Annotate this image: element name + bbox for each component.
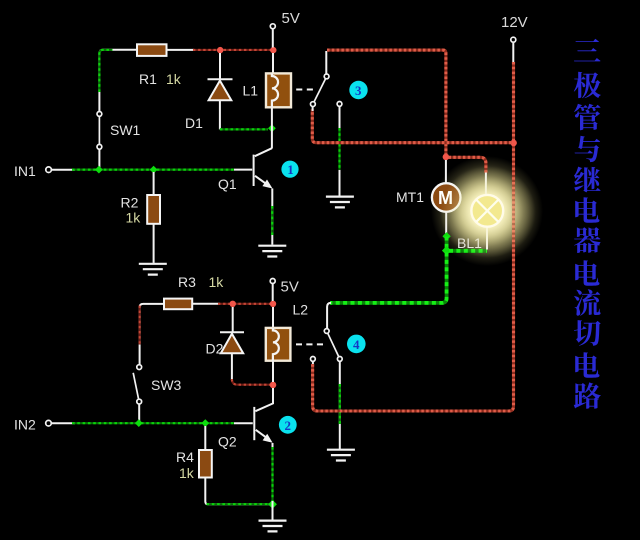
wire green to bulb bottom (449, 249, 487, 253)
bulb glow overlay (440, 166, 536, 258)
wire switch3 right contact to ground (339, 106, 341, 196)
wire 12V rail (313, 62, 514, 411)
svg-text:L1: L1 (243, 83, 259, 99)
wire top red loop to loads (327, 50, 446, 155)
svg-text:4: 4 (353, 337, 360, 352)
terminal 5V lower (270, 279, 299, 302)
svg-text:1k: 1k (126, 210, 142, 226)
junction (5V/L2) (270, 301, 276, 307)
node 2 (279, 416, 297, 434)
wire bulb top red branch (449, 157, 486, 195)
wire D1 bottom (219, 100, 221, 129)
wire R3 left / SW3 riser (140, 304, 165, 365)
wire IN2 (14, 417, 253, 433)
svg-text:SW3: SW3 (151, 377, 182, 393)
wire R2 top (153, 172, 155, 196)
transistor Q2 (218, 388, 273, 450)
svg-text:IN1: IN1 (14, 163, 36, 179)
junction (5V/L1) (270, 47, 276, 53)
junction (R4/IN2) (201, 419, 209, 427)
svg-text:L2: L2 (293, 302, 309, 318)
svg-text:2: 2 (285, 418, 292, 433)
svg-text:1k: 1k (209, 274, 225, 290)
wire node to L1 top (272, 53, 274, 74)
relay L2 (266, 302, 308, 361)
switch 3 (relay L1 contact) (311, 74, 342, 107)
diode D2 (206, 332, 245, 356)
svg-text:5V: 5V (281, 279, 299, 296)
junction (R1/D1) (217, 47, 223, 53)
terminal 12V (501, 14, 528, 63)
svg-text:1: 1 (287, 162, 294, 177)
wire SW1 to R1 (99, 50, 137, 112)
wire motor top (445, 160, 447, 183)
wire node to D1 (219, 53, 221, 79)
wire R2 bottom (153, 224, 155, 263)
junction (motor bottom) (442, 232, 450, 240)
svg-text:SW1: SW1 (110, 122, 141, 138)
node 3 (349, 81, 367, 99)
diode D1 (185, 79, 233, 131)
linkage dashes L1 (296, 89, 313, 91)
svg-text:Q2: Q2 (218, 434, 237, 450)
junction (L2 bottom) (270, 382, 277, 389)
resistor R4 (176, 449, 212, 481)
svg-text:IN2: IN2 (14, 417, 36, 433)
wire motor bottom (445, 212, 447, 235)
svg-text:R3: R3 (178, 274, 196, 290)
svg-text:D1: D1 (185, 115, 203, 131)
node 1 (281, 161, 298, 178)
svg-text:Q1: Q1 (218, 176, 237, 192)
ground (switch3) (326, 197, 354, 208)
wire R3 right (192, 303, 273, 305)
svg-text:D2: D2 (206, 341, 224, 357)
resistor R3 (164, 274, 224, 309)
motor MT1 (396, 183, 461, 212)
svg-text:MT1: MT1 (396, 189, 424, 205)
junction (R3/D2) (230, 301, 236, 307)
node 4 (347, 335, 366, 354)
wire L2 bottom (272, 361, 274, 382)
wire node to D2 (232, 307, 234, 332)
svg-text:R4: R4 (176, 449, 194, 465)
wire R1 to node (167, 49, 274, 51)
wire SW3 bottom (138, 404, 140, 422)
bulb BL1 (471, 195, 503, 227)
terminal 5V (270, 10, 300, 48)
wire node to L2 top (272, 307, 274, 328)
wire L1 bottom to Q1 collector (271, 107, 273, 148)
linkage dashes L2 (296, 343, 323, 345)
svg-text:5V: 5V (282, 10, 300, 27)
wire switch4 left stub (312, 361, 314, 366)
svg-text:R2: R2 (121, 195, 139, 211)
wire green return loop (327, 253, 447, 329)
svg-text:12V: 12V (501, 14, 528, 31)
junction (SW3/IN2) (135, 419, 143, 427)
wire IN1 (14, 163, 234, 179)
ground (Q1 emitter) (258, 246, 286, 257)
junction (12V rail) (510, 140, 517, 147)
junction (L1 bottom) (268, 124, 276, 132)
ground (R2) (139, 264, 167, 275)
junction (R2/IN1) (150, 166, 158, 174)
switch 4 (relay L2 contact) (311, 329, 343, 362)
switch SW3 (133, 365, 181, 404)
wire D2 bottom (232, 353, 270, 384)
wire 12V to switch3 left contact (312, 107, 511, 143)
wire Q1 base (234, 169, 252, 171)
switch SW1 (97, 112, 141, 150)
wire D1 to L1 bottom (green) (220, 128, 268, 130)
ground (switch4) (327, 450, 355, 461)
relay L1 (243, 73, 292, 107)
wire Q1 emitter to ground (271, 189, 273, 245)
wire switch4 right to ground (339, 361, 341, 449)
wire switch3 pole riser (325, 51, 327, 74)
junction (R4/emitter) (268, 500, 277, 509)
junction (SW1/IN1) (95, 166, 103, 174)
svg-text:1k: 1k (166, 71, 182, 87)
transistor Q1 (218, 148, 273, 192)
svg-text:R1: R1 (139, 71, 157, 87)
wire R4 top (204, 426, 206, 451)
wire bulb bottom (486, 228, 488, 250)
bulb glow (431, 156, 543, 266)
svg-text:1k: 1k (179, 465, 195, 481)
wire Q2 emitter to ground (272, 443, 274, 520)
svg-text:3: 3 (355, 83, 362, 98)
resistor R2 (121, 195, 161, 226)
junction (motor/bulb node) (443, 154, 450, 161)
wire green B1-B2 (445, 237, 449, 251)
ground (Q2 emitter) (259, 521, 287, 532)
resistor R1 (137, 44, 182, 87)
title text (vertical Chinese) (574, 39, 601, 409)
junction (bulb return) (442, 246, 451, 255)
wire R4 bottom (205, 478, 270, 505)
wire SW1 to IN1 (98, 149, 100, 169)
